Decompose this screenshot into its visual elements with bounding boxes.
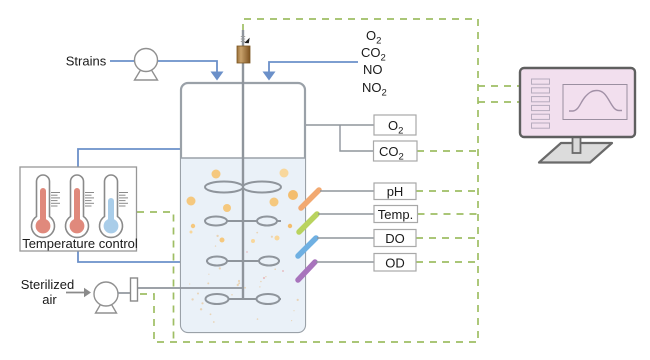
wire: pH probe to box: [320, 190, 374, 192]
speckles in broth: [189, 232, 299, 323]
impeller level 3: [206, 257, 280, 266]
svg-text:Sterilized: Sterilized: [21, 277, 74, 292]
motor rotation mark: [241, 37, 250, 44]
probe pH (orange): [301, 190, 319, 208]
thermometer 2 (red): [66, 175, 95, 237]
impeller level 4: [205, 294, 281, 304]
box CO2: [374, 141, 418, 163]
impeller level 1: [205, 182, 281, 193]
wire: Temp probe to box: [318, 213, 374, 215]
box O2: [374, 115, 416, 137]
svg-text:OD: OD: [385, 256, 405, 271]
vessel: bioreactor tank body: [181, 83, 305, 332]
wire: branch to CO2 box: [340, 125, 374, 151]
arrow: gas inlet: [263, 72, 276, 81]
liquid surface line: [181, 157, 305, 159]
svg-text:DO: DO: [385, 231, 405, 246]
svg-text:CO2: CO2: [361, 45, 386, 64]
wire: green dashed Temp box to trunk: [418, 213, 479, 215]
probe OD (purple): [298, 262, 315, 280]
wire: blue gas feed line: [269, 62, 358, 72]
svg-text:NO: NO: [363, 62, 383, 77]
wire: vessel headspace to O2 box: [306, 124, 374, 126]
wire: DO probe to box: [317, 237, 374, 239]
wire: OD probe to box: [316, 261, 374, 263]
arrow: air inlet: [66, 292, 84, 294]
wire: green dashed control loop (motor to computer trunk to sparger): [138, 19, 478, 342]
svg-text:NO2: NO2: [362, 80, 387, 99]
svg-text:O2: O2: [366, 28, 381, 47]
box DO: [374, 230, 416, 247]
wire: green dashed pH box to trunk: [416, 190, 478, 192]
svg-text:air: air: [42, 292, 57, 307]
motor M1: [237, 46, 250, 63]
agitator shaft: [242, 30, 244, 299]
svg-text:pH: pH: [387, 184, 404, 199]
wire: blue cooling jacket loop: [78, 149, 181, 262]
bubbles: [187, 169, 299, 244]
thermometer 3 (blue): [100, 175, 129, 237]
impeller level 2: [205, 217, 281, 226]
arrow: strains inlet: [211, 72, 224, 81]
pump P1 strains: [135, 49, 158, 81]
probe Temp (green): [299, 214, 317, 232]
sparger filter: [131, 278, 138, 301]
box OD: [374, 254, 416, 272]
pump P2 air: [94, 282, 118, 313]
wire: green dashed DO box to trunk: [416, 237, 478, 239]
wire: sterilized air line into vessel: [138, 287, 243, 289]
wire: green dashed OD box to trunk: [416, 261, 478, 263]
temperature control unit: [20, 167, 137, 251]
wire: green dashed CO2 box to trunk: [417, 150, 478, 152]
wire: green dashed trunk to monitor lower: [478, 101, 520, 103]
liquid fill: [181, 158, 305, 333]
probe DO (blue): [298, 238, 316, 256]
wire: blue strains feed line: [110, 61, 217, 72]
box Temp: [374, 206, 418, 223]
svg-text:Strains: Strains: [66, 54, 107, 69]
box pH: [374, 183, 416, 200]
wire: green dashed trunk to monitor upper: [478, 85, 520, 87]
wire: green dashed from temperature control down to bottom loop: [137, 212, 174, 342]
svg-text:Temp.: Temp.: [378, 207, 413, 222]
thermometer 1 (red): [32, 175, 60, 237]
computer monitor: [520, 68, 635, 163]
wire: pump to sparger: [118, 292, 131, 294]
label: gas list O2 CO2 NO NO2: [361, 28, 387, 99]
svg-text:Temperature control: Temperature control: [22, 236, 138, 251]
